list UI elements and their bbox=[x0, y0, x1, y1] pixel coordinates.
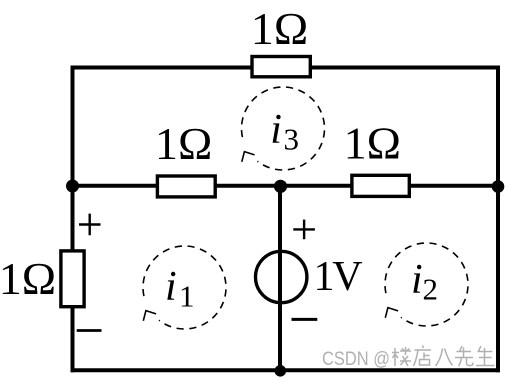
wire bottom horizontal bbox=[71, 368, 501, 372]
wire middle horizontal bbox=[71, 184, 501, 188]
wire left vertical bbox=[71, 66, 75, 373]
resistor R4 (left vertical, 1 ohm) bbox=[61, 251, 84, 307]
watermark CJK glyph ba bbox=[436, 349, 453, 367]
watermark CJK glyph sheng bbox=[476, 346, 495, 366]
svg-text:2: 2 bbox=[423, 272, 439, 307]
watermark CJK glyph lou bbox=[392, 347, 411, 366]
mesh current i3 dashed arrow circle bbox=[242, 87, 325, 170]
wire right vertical bbox=[496, 66, 500, 373]
node dot left junction bbox=[66, 180, 79, 193]
svg-text:1V: 1V bbox=[314, 254, 363, 300]
svg-text:i: i bbox=[165, 264, 177, 310]
plus sign left resistor bbox=[79, 214, 101, 236]
svg-text:3: 3 bbox=[284, 122, 300, 157]
svg-text:1Ω: 1Ω bbox=[0, 253, 56, 304]
svg-text:1Ω: 1Ω bbox=[251, 3, 308, 54]
resistor R3 (middle right, 1 ohm) bbox=[352, 175, 409, 196]
plus sign source bbox=[293, 220, 315, 240]
mesh current i2 dashed arrow circle bbox=[385, 243, 468, 326]
resistor R2 (middle left, 1 ohm) bbox=[157, 176, 215, 197]
wire center vertical (through source) bbox=[278, 184, 282, 373]
svg-text:1Ω: 1Ω bbox=[344, 118, 401, 169]
svg-text:1: 1 bbox=[179, 279, 195, 314]
mesh current i1 dashed arrow circle bbox=[143, 246, 226, 329]
watermark CJK glyph dian bbox=[414, 346, 432, 367]
resistor R1 (top, 1 ohm) bbox=[252, 57, 310, 77]
svg-text:i: i bbox=[270, 107, 282, 153]
minus sign source bbox=[292, 318, 318, 321]
svg-text:i: i bbox=[411, 257, 423, 303]
node dot bottom junction bbox=[275, 365, 287, 377]
minus sign left resistor bbox=[77, 329, 102, 332]
node dot center junction bbox=[274, 180, 287, 193]
voltage source V1 circle bbox=[256, 251, 307, 302]
node dot right junction bbox=[492, 180, 505, 193]
watermark CJK glyph xian bbox=[455, 346, 473, 366]
svg-text:CSDN @: CSDN @ bbox=[322, 348, 390, 370]
wire top horizontal bbox=[71, 66, 501, 70]
svg-text:1Ω: 1Ω bbox=[155, 118, 212, 169]
